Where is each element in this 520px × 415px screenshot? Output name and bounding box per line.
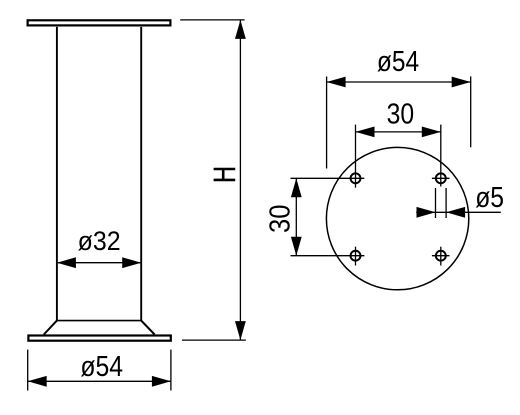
svg-text:ø32: ø32 (78, 226, 121, 256)
svg-text:ø54: ø54 (80, 351, 123, 383)
svg-text:30: 30 (264, 205, 296, 234)
svg-text:ø5: ø5 (475, 182, 504, 214)
svg-text:ø54: ø54 (377, 46, 419, 78)
svg-text:30: 30 (387, 99, 415, 131)
